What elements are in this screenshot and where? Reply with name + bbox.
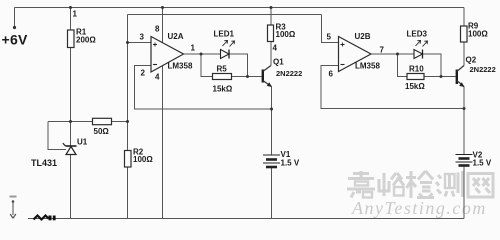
battery V2 <box>456 155 473 166</box>
wire LED1 leads <box>201 53 221 55</box>
wire V1 to ground rail <box>271 167 273 219</box>
resistor R9 <box>461 22 489 43</box>
svg-text:1.5 V: 1.5 V <box>473 159 492 168</box>
wire V2 to ground rail <box>463 166 465 219</box>
resistor R10 <box>405 65 425 92</box>
svg-text:U1: U1 <box>77 138 88 147</box>
svg-text:2: 2 <box>141 69 146 78</box>
label COM scribble on ground rail <box>34 216 56 221</box>
svg-text:1.5 V: 1.5 V <box>281 158 300 167</box>
wire U2A pin4 to ground <box>162 66 164 219</box>
wire stage2 plus input <box>322 15 339 43</box>
node junction Q2 emitter feedback <box>463 107 466 110</box>
svg-text:U2B: U2B <box>355 32 371 41</box>
svg-text:5: 5 <box>327 33 332 42</box>
ground reference marker <box>10 197 17 219</box>
node junction U2B output split <box>396 53 399 56</box>
wire U2A plus input <box>128 42 152 44</box>
node junction 50 ohm / reference branch <box>126 120 129 123</box>
watermark char 嘉 <box>347 171 375 198</box>
wire top +6V rail <box>15 7 465 9</box>
transistor Q1 <box>263 58 302 88</box>
wire U2B minus input feedback <box>321 66 464 109</box>
wire Q2 emitter down to V2 <box>463 87 465 155</box>
svg-text:6: 6 <box>329 70 334 79</box>
resistor R1 <box>68 28 97 48</box>
wire U2A pin8 to rail <box>162 8 164 43</box>
svg-text:R5: R5 <box>217 65 228 74</box>
wire TL431 anode to ground rail <box>70 155 72 219</box>
resistor R3 <box>268 23 296 42</box>
watermark char 网 <box>468 174 493 198</box>
svg-text:LED1: LED1 <box>214 30 235 39</box>
svg-text:3: 3 <box>140 33 145 42</box>
wire TL431 ref stub <box>48 122 66 150</box>
svg-text:+6V: +6V <box>2 32 29 48</box>
wire Q1 collector to R3 <box>270 42 272 66</box>
node junction U2A output split <box>200 53 203 56</box>
wire Q2 collector to R9 <box>463 42 465 66</box>
svg-text:R10: R10 <box>409 65 424 74</box>
wire U2A minus input feedback <box>135 66 272 110</box>
wire LED3 right lead <box>423 54 442 77</box>
watermark char 检 <box>406 171 434 198</box>
svg-text:LM358: LM358 <box>168 62 193 71</box>
wire R5 leads <box>201 54 213 77</box>
svg-text:AnyTesting.com: AnyTesting.com <box>351 198 487 218</box>
svg-text:100Ω: 100Ω <box>276 30 296 39</box>
wire +6V drop <box>14 8 16 28</box>
regulator U1 TL431 <box>31 138 88 169</box>
wire R3 top lead <box>270 8 272 26</box>
svg-text:4: 4 <box>273 44 278 53</box>
svg-text:7: 7 <box>380 46 385 55</box>
op-amp U2A <box>140 25 196 82</box>
watermark char 测 <box>436 171 463 197</box>
svg-text:50Ω: 50Ω <box>94 127 110 136</box>
svg-text:U2A: U2A <box>168 32 184 41</box>
svg-text:LM358: LM358 <box>355 62 380 71</box>
wire 50 ohm left lead <box>48 121 93 123</box>
wire U2A output <box>184 53 202 55</box>
resistor R2 <box>125 148 154 168</box>
resistor R5 <box>213 65 233 94</box>
wire Q2 base <box>441 76 456 78</box>
node junction R3/top rail <box>270 6 273 9</box>
node junction pin8/top rail <box>161 6 164 9</box>
wire reference vertical branch <box>127 15 129 219</box>
battery V1 <box>263 155 280 167</box>
node junction R5/LED1 right <box>246 75 249 78</box>
wire reference horizontal to stage2 <box>128 14 322 16</box>
svg-text:Q1: Q1 <box>273 58 284 67</box>
svg-text:200Ω: 200Ω <box>76 36 96 45</box>
transistor Q2 <box>457 56 496 88</box>
svg-text:2N2222: 2N2222 <box>276 69 302 78</box>
svg-text:TL431: TL431 <box>31 158 57 168</box>
node junction Q1 emitter feedback <box>270 108 273 111</box>
svg-text:15kΩ: 15kΩ <box>405 82 425 91</box>
node +6V terminal dot <box>13 26 16 29</box>
svg-text:4: 4 <box>155 73 160 82</box>
node 1 junction R1/top rail <box>69 6 72 9</box>
LED LED3 <box>407 30 428 59</box>
LED LED1 <box>214 30 235 59</box>
node junction TL431 cathode / 50 ohm <box>69 120 72 123</box>
wire bottom ground rail <box>28 218 464 220</box>
svg-text:100Ω: 100Ω <box>468 30 488 39</box>
svg-text:8: 8 <box>155 25 160 34</box>
wire R1 to TL431 <box>70 48 72 147</box>
svg-text:1: 1 <box>191 44 196 53</box>
wire 50 ohm right lead <box>112 121 128 123</box>
svg-text:1: 1 <box>73 10 78 19</box>
svg-text:LED3: LED3 <box>407 30 428 39</box>
wire U2B output <box>371 53 414 55</box>
svg-text:Q2: Q2 <box>466 56 477 65</box>
wire R9 top lead <box>463 8 465 27</box>
node junction R10/LED3 right <box>440 75 443 78</box>
svg-text:100Ω: 100Ω <box>133 155 153 164</box>
wire R10 leads <box>398 54 408 77</box>
node junction plus input U2A <box>126 41 129 44</box>
wire Q1 emitter down to V1 <box>271 87 273 156</box>
svg-text:2N2222: 2N2222 <box>470 65 496 74</box>
wire R1 branch upper <box>70 8 72 31</box>
svg-text:15kΩ: 15kΩ <box>213 85 233 94</box>
wire Q1 base <box>248 76 263 78</box>
resistor 50 ohm <box>93 118 112 136</box>
op-amp U2B <box>327 32 385 79</box>
watermark char 峪 <box>379 173 404 196</box>
